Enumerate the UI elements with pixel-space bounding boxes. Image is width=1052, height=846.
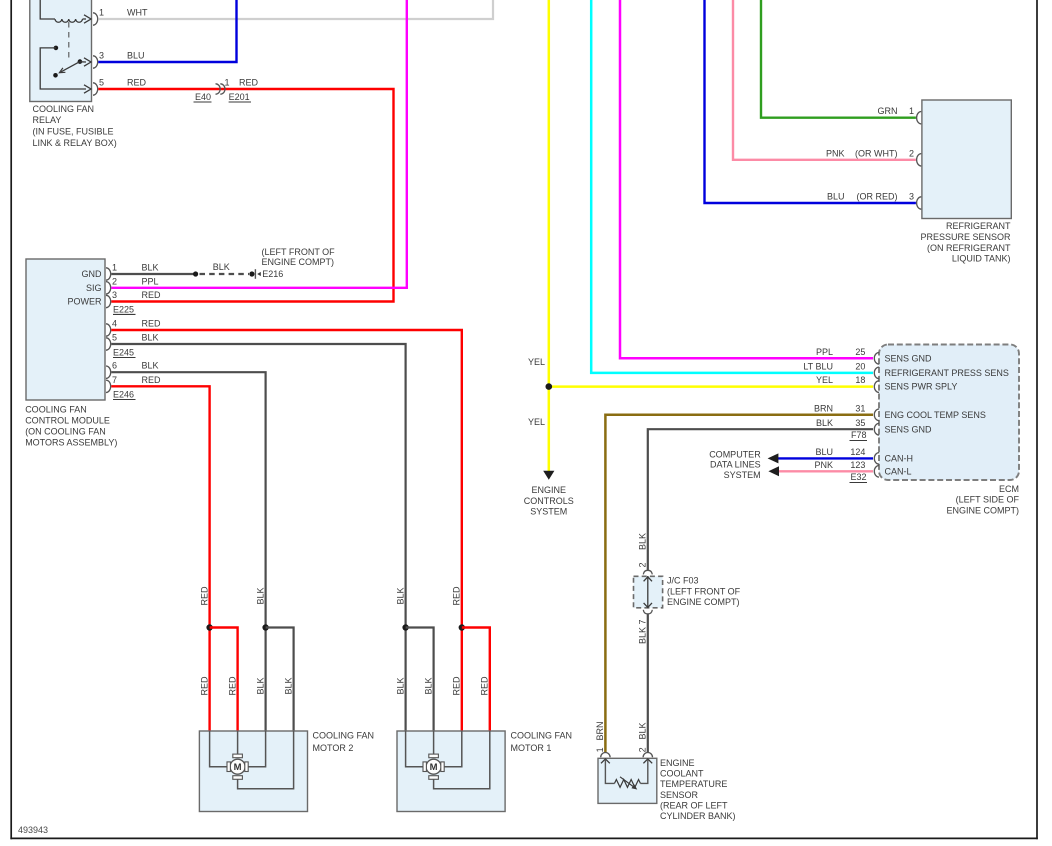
svg-text:BLU: BLU (127, 51, 145, 61)
wire RED motor1 branch (462, 628, 490, 732)
svg-text:YEL: YEL (528, 417, 545, 427)
ECM pin 123 CAN-L (874, 466, 879, 478)
svg-text:CONTROL MODULE: CONTROL MODULE (25, 416, 110, 426)
svg-text:SIG: SIG (86, 283, 102, 293)
svg-text:BLK: BLK (255, 677, 265, 694)
junction motor2 blk (262, 624, 268, 630)
svg-text:RED: RED (142, 290, 162, 300)
svg-text:RELAY: RELAY (33, 115, 62, 125)
svg-text:2: 2 (909, 148, 914, 158)
wire PNK refrigerant sensor pin2 (733, 0, 916, 160)
wire BLK dashed to E216 (200, 273, 250, 275)
svg-text:REFRIGERANT PRESS SENS: REFRIGERANT PRESS SENS (885, 368, 1009, 378)
svg-text:BLK: BLK (638, 533, 648, 550)
svg-text:1: 1 (99, 8, 104, 18)
wire BLK motor2 branch (266, 628, 294, 732)
svg-text:SENS PWR SPLY: SENS PWR SPLY (885, 382, 958, 392)
wire BRN ECM pin31 to coolant sensor (605, 415, 873, 753)
ECM pin 35 SENS GND (874, 423, 879, 435)
svg-text:(OR WHT): (OR WHT) (855, 148, 898, 158)
svg-text:M: M (430, 762, 438, 773)
svg-text:YEL: YEL (528, 357, 545, 367)
arrow engine controls system (543, 471, 554, 480)
wire RED motor2 branch (210, 628, 238, 732)
svg-text:SENSOR: SENSOR (660, 790, 699, 800)
svg-text:BLK: BLK (423, 677, 433, 694)
svg-text:GRN: GRN (878, 106, 898, 116)
svg-text:BLK: BLK (638, 722, 648, 739)
svg-text:18: 18 (855, 375, 865, 385)
svg-text:493943: 493943 (18, 825, 48, 835)
wire BLK ECM pin35 to coolant sensor (648, 429, 873, 570)
svg-text:3: 3 (112, 290, 117, 300)
wire BLK motor1 branch (406, 628, 434, 732)
page border right (1036, 0, 1038, 839)
svg-text:5: 5 (99, 78, 104, 88)
svg-text:E201: E201 (229, 92, 250, 102)
svg-text:WHT: WHT (127, 8, 148, 18)
svg-text:MOTORS ASSEMBLY): MOTORS ASSEMBLY) (25, 438, 117, 448)
relay coil dashed link (68, 22, 70, 62)
module pin 5 (106, 338, 111, 350)
svg-text:E245: E245 (113, 348, 134, 358)
module pin 3 (106, 295, 111, 307)
svg-text:REFRIGERANT: REFRIGERANT (946, 221, 1011, 231)
svg-text:20: 20 (855, 362, 865, 372)
relay pin 3 (93, 56, 98, 68)
svg-text:PNK: PNK (826, 148, 845, 158)
refrigerant pressure sensor box (922, 100, 1011, 219)
module pin 2 (106, 282, 111, 294)
module pin 4 (106, 324, 111, 336)
svg-text:124: 124 (850, 447, 865, 457)
svg-text:BRN: BRN (814, 403, 833, 413)
svg-text:BLK: BLK (142, 263, 159, 273)
svg-text:RED: RED (199, 586, 209, 606)
wire RED motor1 main (461, 628, 463, 732)
svg-text:3: 3 (909, 192, 914, 202)
coolant sensor pin 1 connector (601, 753, 610, 758)
wire WHT relay pin1 (98, 0, 493, 19)
svg-text:(IN FUSE, FUSIBLE: (IN FUSE, FUSIBLE (33, 126, 114, 136)
module pin 6 (106, 366, 111, 378)
J/C F03 bottom connector (643, 610, 652, 614)
wire BLU CAN-H (778, 457, 873, 459)
svg-text:1: 1 (112, 263, 117, 273)
svg-text:BLU: BLU (815, 447, 833, 457)
svg-text:(OR RED): (OR RED) (857, 192, 898, 202)
wire BLK module pin6 (111, 372, 265, 627)
svg-text:RED: RED (199, 676, 209, 696)
wire RED motor2 main (208, 628, 210, 732)
wire RED module pin4 (111, 330, 462, 628)
svg-text:2: 2 (638, 562, 648, 567)
svg-text:MOTOR 1: MOTOR 1 (511, 743, 552, 753)
svg-text:COOLING FAN: COOLING FAN (313, 731, 375, 741)
svg-text:E40: E40 (195, 92, 211, 102)
svg-text:PRESSURE SENSOR: PRESSURE SENSOR (920, 232, 1011, 242)
svg-text:ENGINE COMPT): ENGINE COMPT) (667, 597, 740, 607)
relay pin 1 (93, 13, 98, 25)
wire PPL module pin2 SIG (111, 0, 407, 288)
module pin 7 (106, 380, 111, 392)
svg-text:RED: RED (480, 676, 490, 696)
relay coil (40, 0, 55, 19)
svg-text:(ON REFRIGERANT: (ON REFRIGERANT (927, 243, 1011, 253)
svg-text:7: 7 (112, 375, 117, 385)
svg-text:2: 2 (112, 276, 117, 286)
svg-text:COOLING FAN: COOLING FAN (511, 731, 573, 741)
wire BLU refrigerant sensor pin3 (705, 0, 916, 203)
svg-text:ECM: ECM (999, 484, 1019, 494)
wire YEL vertical (548, 0, 551, 472)
svg-text:3: 3 (99, 51, 104, 61)
wire GRN refrigerant sensor pin1 (761, 0, 916, 118)
wire PNK CAN-L (779, 470, 873, 472)
svg-text:RED: RED (452, 586, 462, 606)
svg-text:6: 6 (112, 361, 117, 371)
svg-text:COMPUTER: COMPUTER (709, 449, 761, 459)
svg-text:RED: RED (127, 78, 147, 88)
svg-text:ENGINE: ENGINE (660, 758, 695, 768)
wire BLK module pin5 (111, 344, 405, 628)
svg-text:COOLANT: COOLANT (660, 768, 704, 778)
cooling fan relay box (30, 0, 92, 102)
svg-text:RED: RED (227, 676, 237, 696)
svg-text:(LEFT SIDE OF: (LEFT SIDE OF (956, 495, 1020, 505)
svg-text:RED: RED (239, 77, 259, 87)
svg-text:BLK: BLK (283, 677, 293, 694)
svg-text:F78: F78 (851, 430, 867, 440)
svg-text:BLK: BLK (213, 262, 230, 272)
svg-text:1: 1 (909, 106, 914, 116)
svg-text:BLK: BLK (638, 627, 648, 644)
svg-text:CONTROLS: CONTROLS (524, 496, 574, 506)
svg-text:RED: RED (142, 319, 162, 329)
svg-text:J/C F03: J/C F03 (667, 576, 699, 586)
cooling fan motor 2 (199, 731, 307, 812)
svg-text:(ON COOLING FAN: (ON COOLING FAN (25, 427, 106, 437)
coolant sensor pin 2 connector (643, 753, 652, 758)
junction motor2 red (206, 624, 212, 630)
svg-text:BRN: BRN (595, 721, 605, 740)
svg-text:7: 7 (638, 619, 648, 624)
ECM pin 31 ENG COOL TEMP SENS (874, 409, 879, 421)
svg-text:31: 31 (855, 403, 865, 413)
relay switch (54, 46, 59, 51)
svg-text:(REAR OF LEFT: (REAR OF LEFT (660, 800, 728, 810)
junction motor1 red (459, 624, 465, 630)
svg-text:E216: E216 (262, 269, 283, 279)
svg-text:SENS GND: SENS GND (885, 424, 933, 434)
svg-text:1: 1 (225, 77, 230, 87)
cooling fan control module box (26, 259, 105, 400)
cooling fan motor 1 (397, 731, 505, 812)
svg-text:E225: E225 (113, 305, 134, 315)
svg-text:CAN-H: CAN-H (885, 454, 914, 464)
svg-text:ENGINE: ENGINE (532, 485, 567, 495)
engine coolant temperature sensor box (598, 758, 657, 803)
ECM pin 124 CAN-H (874, 453, 879, 465)
junction connector J/C F03 box (634, 576, 663, 608)
svg-text:SENS GND: SENS GND (885, 353, 933, 363)
junction motor1 blk (402, 624, 408, 630)
svg-text:4: 4 (112, 319, 117, 329)
ECM pin 25 SENS GND (874, 353, 879, 365)
svg-text:(LEFT FRONT OF: (LEFT FRONT OF (262, 247, 336, 257)
svg-text:BLK: BLK (142, 361, 159, 371)
svg-text:BLU: BLU (827, 192, 845, 202)
svg-text:LT BLU: LT BLU (803, 362, 833, 372)
svg-text:MOTOR 2: MOTOR 2 (313, 743, 354, 753)
svg-text:BLK: BLK (255, 587, 265, 604)
svg-text:DATA LINES: DATA LINES (710, 460, 761, 470)
wire BLK motor2 main (265, 628, 267, 732)
J/C F03 internal wire (647, 576, 649, 608)
sensor pin 1 (917, 112, 922, 124)
svg-text:ENG COOL TEMP SENS: ENG COOL TEMP SENS (885, 410, 986, 420)
wire LT BLU to ECM pin20 (591, 0, 873, 373)
svg-text:E246: E246 (113, 390, 134, 400)
connector E216 (254, 269, 256, 279)
svg-text:PNK: PNK (814, 460, 833, 470)
svg-text:25: 25 (855, 347, 865, 357)
svg-text:LINK & RELAY BOX): LINK & RELAY BOX) (33, 138, 117, 148)
svg-text:35: 35 (855, 418, 865, 428)
svg-text:POWER: POWER (67, 297, 102, 307)
svg-text:RED: RED (452, 676, 462, 696)
svg-text:SYSTEM: SYSTEM (724, 470, 761, 480)
connector E40-E201 (216, 84, 221, 94)
sensor pin 3 (917, 197, 922, 209)
svg-text:1: 1 (595, 747, 605, 752)
J/C F03 top connector (643, 570, 652, 574)
wire BLK module pin1 ground (111, 273, 195, 275)
svg-text:COOLING FAN: COOLING FAN (33, 104, 95, 114)
svg-text:BLK: BLK (142, 333, 159, 343)
page border bottom (10, 837, 1037, 839)
wire YEL to ECM pin18 (549, 385, 873, 388)
module pin 1 (106, 268, 111, 280)
sensor pin 2 (917, 154, 922, 166)
junction YEL (546, 383, 553, 390)
wire BLU relay pin3 (98, 0, 236, 62)
wire RED relay pin5 to module pin3 (98, 89, 393, 302)
svg-text:ENGINE COMPT): ENGINE COMPT) (262, 257, 335, 267)
wire RED module pin7 (111, 386, 209, 627)
svg-text:PPL: PPL (142, 276, 159, 286)
svg-text:RED: RED (142, 375, 162, 385)
svg-text:BLK: BLK (395, 587, 405, 604)
svg-text:COOLING FAN: COOLING FAN (25, 405, 87, 415)
svg-text:SYSTEM: SYSTEM (530, 506, 567, 516)
svg-text:GND: GND (82, 269, 103, 279)
ECM box (879, 345, 1019, 481)
relay pin 5 (93, 83, 98, 95)
svg-text:LIQUID TANK): LIQUID TANK) (952, 254, 1011, 264)
svg-text:YEL: YEL (816, 375, 833, 385)
svg-text:BLK: BLK (816, 418, 833, 428)
relay switch arm (61, 62, 80, 72)
svg-text:E32: E32 (850, 472, 866, 482)
svg-text:ENGINE COMPT): ENGINE COMPT) (946, 505, 1019, 515)
wire BLK motor1 main (405, 628, 407, 732)
svg-text:BLK: BLK (395, 677, 405, 694)
svg-text:M: M (234, 762, 242, 773)
ECM pin 18 SENS PWR SPLY (874, 381, 879, 393)
wire PPL to ECM pin25 (620, 0, 873, 358)
svg-text:123: 123 (850, 460, 865, 470)
svg-text:5: 5 (112, 333, 117, 343)
svg-text:2: 2 (637, 747, 647, 752)
svg-text:CAN-L: CAN-L (885, 466, 912, 476)
svg-text:PPL: PPL (816, 347, 833, 357)
coolant sensor thermistor (605, 760, 614, 784)
page border left (10, 0, 12, 839)
svg-text:(LEFT FRONT OF: (LEFT FRONT OF (667, 587, 741, 597)
ECM pin 20 REFRIGERANT PRESS SENS (874, 367, 879, 379)
svg-text:CYLINDER BANK): CYLINDER BANK) (660, 811, 736, 821)
svg-text:TEMPERATURE: TEMPERATURE (660, 779, 727, 789)
